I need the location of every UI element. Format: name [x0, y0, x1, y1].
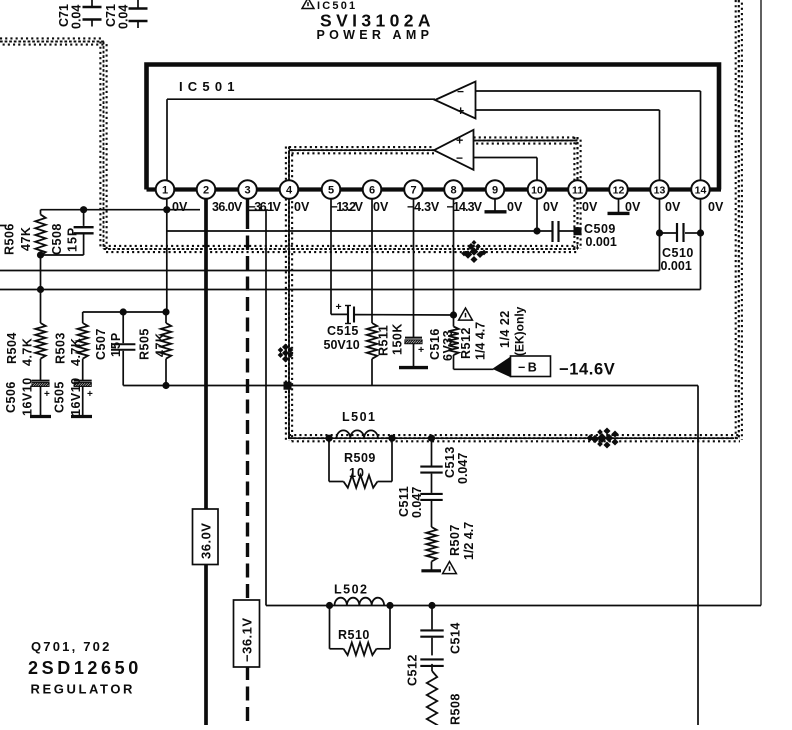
svg-text:C516: C516	[428, 328, 442, 360]
svg-text:50V10: 50V10	[324, 338, 360, 352]
svg-text:1/4 22: 1/4 22	[498, 310, 512, 348]
svg-text:0.001: 0.001	[661, 259, 692, 273]
svg-text:+: +	[336, 301, 342, 313]
svg-text:R511: R511	[377, 325, 391, 356]
svg-text:0V: 0V	[543, 200, 559, 214]
svg-text:R506: R506	[3, 223, 17, 255]
svg-text:8: 8	[450, 184, 456, 196]
svg-text:−B: −B	[518, 361, 539, 375]
svg-text:15P: 15P	[109, 332, 123, 357]
svg-text:16V10: 16V10	[21, 377, 35, 416]
svg-text:R504: R504	[5, 332, 19, 364]
svg-text:0.001: 0.001	[586, 235, 617, 249]
svg-text:36.0V: 36.0V	[212, 200, 243, 214]
svg-text:10: 10	[531, 184, 543, 196]
svg-text:C505: C505	[53, 381, 67, 413]
svg-text:C507: C507	[94, 328, 108, 360]
svg-text:R509: R509	[344, 451, 376, 465]
svg-text:Q701, 702: Q701, 702	[31, 639, 112, 654]
svg-text:6: 6	[369, 184, 375, 196]
svg-text:C510: C510	[662, 246, 694, 260]
svg-text:+: +	[87, 389, 93, 400]
svg-text:4.7K: 4.7K	[69, 338, 83, 366]
svg-text:0.04: 0.04	[117, 5, 131, 29]
svg-text:R510: R510	[338, 628, 370, 642]
svg-text:1/2 4.7: 1/2 4.7	[462, 522, 476, 560]
svg-text:R508: R508	[449, 693, 463, 725]
svg-text:4: 4	[286, 184, 293, 196]
svg-text:0V: 0V	[582, 200, 598, 214]
svg-text:−: −	[456, 151, 463, 165]
svg-text:R503: R503	[54, 332, 68, 364]
svg-text:0V: 0V	[665, 200, 681, 214]
svg-text:16V10: 16V10	[69, 377, 83, 416]
svg-text:0V: 0V	[294, 200, 310, 214]
svg-text:+: +	[456, 134, 463, 148]
svg-text:0V: 0V	[373, 200, 389, 214]
svg-text:15P: 15P	[66, 227, 80, 252]
svg-text:47K: 47K	[19, 227, 33, 251]
svg-text:C509: C509	[584, 222, 616, 236]
svg-text:R505: R505	[138, 328, 152, 360]
svg-text:L501: L501	[342, 410, 377, 424]
svg-text:0V: 0V	[172, 200, 188, 214]
svg-text:5: 5	[328, 184, 334, 196]
svg-text:2SD12650: 2SD12650	[28, 658, 142, 678]
svg-text:0V: 0V	[625, 200, 641, 214]
svg-text:0.047: 0.047	[456, 453, 470, 484]
svg-text:6V33: 6V33	[441, 330, 455, 361]
svg-text:+: +	[44, 389, 50, 400]
svg-text:C513: C513	[443, 446, 457, 478]
svg-text:0.047: 0.047	[410, 487, 424, 518]
svg-text:−13.2V: −13.2V	[331, 200, 364, 214]
svg-text:4.7K: 4.7K	[21, 338, 35, 366]
svg-text:2: 2	[203, 184, 209, 196]
svg-text:R507: R507	[448, 524, 462, 556]
svg-text:−36.1V: −36.1V	[249, 200, 282, 214]
svg-text:−4.3V: −4.3V	[407, 200, 440, 214]
svg-text:C506: C506	[4, 381, 18, 413]
svg-text:150K: 150K	[391, 323, 405, 355]
svg-text:3: 3	[244, 184, 250, 196]
svg-text:C512: C512	[406, 654, 420, 686]
svg-text:L502: L502	[334, 583, 369, 597]
svg-text:C511: C511	[397, 486, 411, 517]
svg-text:0V: 0V	[708, 200, 724, 214]
svg-text:C515: C515	[327, 324, 359, 338]
svg-text:0V: 0V	[507, 200, 523, 214]
svg-text:R512: R512	[459, 327, 473, 359]
svg-text:14: 14	[695, 184, 707, 196]
svg-text:−14.3V: −14.3V	[447, 200, 483, 214]
svg-text:C508: C508	[50, 223, 64, 255]
svg-text:0.04: 0.04	[70, 5, 84, 29]
svg-text:36.0V: 36.0V	[199, 523, 214, 559]
svg-text:+: +	[457, 104, 464, 118]
svg-text:−36.1V: −36.1V	[240, 617, 255, 662]
svg-text:10: 10	[349, 466, 365, 480]
svg-text:−14.6V: −14.6V	[559, 361, 615, 379]
svg-text:12: 12	[613, 184, 625, 196]
svg-text:+: +	[418, 344, 424, 356]
svg-text:POWER AMP: POWER AMP	[317, 28, 434, 42]
svg-text:REGULATOR: REGULATOR	[31, 682, 136, 697]
svg-text:7: 7	[410, 184, 416, 196]
svg-text:1: 1	[162, 184, 168, 196]
svg-text:47K: 47K	[154, 333, 168, 357]
svg-text:13: 13	[654, 184, 666, 196]
svg-text:11: 11	[572, 184, 583, 196]
svg-text:1/4 4.7: 1/4 4.7	[474, 322, 488, 360]
svg-text:IC501: IC501	[179, 79, 240, 94]
svg-text:9: 9	[492, 184, 498, 196]
svg-text:C514: C514	[449, 622, 463, 654]
svg-text:(EK)only: (EK)only	[513, 306, 527, 356]
svg-text:−: −	[457, 85, 464, 99]
